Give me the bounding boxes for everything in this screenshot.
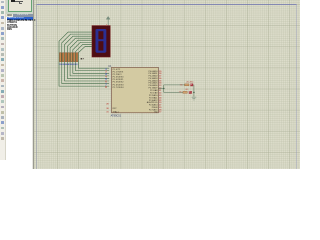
resistor R9 body (185, 84, 189, 86)
svg-text:LED-RED: LED-RED (186, 81, 194, 83)
preview pane component thumbnail (11, 0, 15, 2)
node B junction dot (193, 92, 194, 93)
LED D2 (189, 91, 192, 94)
wire: resistor R3 to U1 pin P1.5 (65, 62, 110, 81)
wire: LED D1 to ground rail (193, 85, 195, 97)
wire: U1 pin to node A (158, 88, 163, 90)
wire: display pin 1 to resistor R1 (59, 32, 92, 53)
U1 left pin numbers 1-8 (105, 67, 107, 89)
svg-text:AT89C51: AT89C51 (111, 114, 122, 117)
svg-text:330: 330 (179, 92, 182, 94)
wire: resistor R8 to U1 pin P1.0 (78, 62, 109, 69)
U1 left pin names P1.0-P1.7 (113, 69, 125, 89)
wire: display pin 6 to resistor R6 (73, 42, 92, 53)
wire: display pin 8 to resistor R8 (78, 46, 92, 53)
wire: display pin 7 to resistor R7 (76, 44, 92, 53)
resistor R5 body (71, 53, 73, 62)
resistor R4 body (68, 53, 70, 62)
LED D1 (190, 84, 193, 87)
microcontroller U1 (AT89C51) body (112, 67, 159, 112)
7-segment display digit segments (96, 29, 107, 53)
wire through resistor R1 (58, 53, 60, 62)
resistor R7 body (76, 53, 78, 62)
wire through resistor R7 (75, 53, 77, 62)
U1 right pin numbers (159, 71, 162, 114)
svg-text:31: 31 (106, 111, 109, 113)
wire: resistor R5 to U1 pin P1.3 (70, 62, 109, 76)
svg-text:29: 29 (106, 104, 109, 106)
wire: resistor R2 to U1 pin P1.6 (62, 62, 109, 84)
resistor R10 body (183, 91, 187, 93)
sheet border left edge (36, 5, 38, 169)
svg-text:330: 330 (180, 84, 183, 86)
wire through resistor R2 (61, 53, 63, 62)
wire: display pin 2 to resistor R2 (62, 34, 92, 53)
resistor R1 body (60, 53, 62, 62)
power terminal VCC (106, 16, 110, 25)
wire through resistor R4 (66, 53, 68, 62)
resistor R3 body (65, 53, 67, 62)
wire: upper branch to R9 (164, 84, 185, 86)
left toolbar icon strip (1, 1, 4, 4)
ground symbol (192, 97, 197, 100)
svg-text:P0.7/AD7: P0.7/AD7 (148, 86, 158, 89)
resistor R2 body (62, 53, 64, 62)
svg-text:RD: RD (154, 112, 158, 114)
U1 pin XTAL1 name and number (106, 110, 119, 113)
wire through resistor R6 (72, 53, 74, 62)
wire: resistor R4 to U1 pin P1.4 (67, 62, 109, 79)
svg-text:17: 17 (159, 112, 162, 114)
resistor value labels (blue) (59, 64, 80, 66)
wire through resistor R3 (64, 53, 66, 62)
wire through resistor R8 (77, 53, 79, 62)
U1 pin RST name and number (106, 108, 117, 110)
wire: display pin 4 to resistor R4 (67, 38, 92, 53)
wire: lower branch to R10 (164, 91, 183, 93)
svg-text:XTAL1: XTAL1 (113, 110, 120, 113)
resistor R6 body (73, 53, 75, 62)
wire: resistor R1 to U1 pin P1.7 (59, 62, 109, 87)
U1 right pin names P0/P2/P3 (147, 70, 158, 114)
7-segment display DISP1 body (92, 26, 110, 57)
wire: display pin 3 to resistor R3 (65, 36, 92, 53)
wire: resistor R6 to U1 pin P1.2 (73, 62, 109, 74)
node A junction dot (163, 88, 164, 89)
grid (33, 0, 35, 169)
sheet border top edge (37, 4, 297, 6)
sheet border right edge (296, 5, 298, 169)
svg-text:P1.7/CEX4: P1.7/CEX4 (113, 87, 125, 89)
wire: node A vertical (163, 85, 165, 93)
wire: display pin 5 to resistor R5 (70, 40, 92, 53)
wire through resistor R5 (69, 53, 71, 62)
resistor pack annotation text (81, 58, 85, 60)
wire: resistor R7 to U1 pin P1.1 (76, 62, 110, 71)
